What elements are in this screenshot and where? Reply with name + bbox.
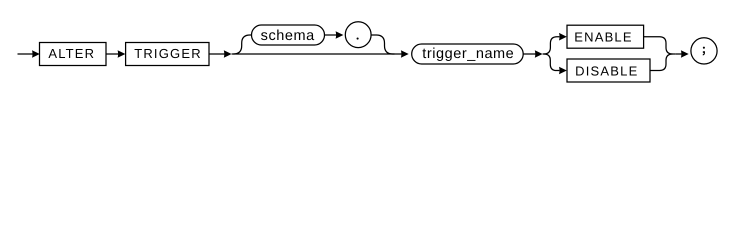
main skip wire under schema branch [232,53,402,55]
svg-text:schema: schema [261,28,315,44]
nonterminal stadium schema [252,25,325,45]
arrowhead into DISABLE [559,67,567,75]
split-down curve to DISABLE [544,54,560,71]
svg-text:trigger_name: trigger_name [422,46,514,62]
branch-down curve rejoining main wire [371,35,394,54]
split wire continue [543,53,544,55]
nonterminal stadium trigger_name [412,44,524,64]
arrowhead into dot [336,31,344,39]
split-up curve to ENABLE [544,37,560,54]
wire merge to semicolon [675,53,682,55]
keyword box ALTER [40,43,107,66]
svg-text:ENABLE: ENABLE [574,29,633,44]
wire schema to dot [325,34,338,36]
keyword box TRIGGER [126,43,209,66]
keyword box ENABLE [567,25,644,48]
merge wire from ENABLE [644,37,676,54]
wire ALTER to TRIGGER [106,53,119,55]
merge wire from DISABLE [650,54,673,71]
arrowhead after TRIGGER [224,50,232,58]
start wire [18,53,35,55]
start arrowhead [32,50,40,58]
arrowhead into trigger_name [401,50,409,58]
arrowhead into semicolon [681,50,689,58]
keyword box DISABLE [567,59,650,82]
svg-text:ALTER: ALTER [48,46,95,61]
terminal circle semicolon [691,38,717,64]
arrowhead into ENABLE [559,33,567,41]
arrowhead before split [535,50,543,58]
arrowhead into TRIGGER [118,50,126,58]
svg-text:TRIGGER: TRIGGER [134,46,202,61]
svg-text:DISABLE: DISABLE [575,64,638,79]
wire after TRIGGER [209,53,225,55]
branch-up curve to schema [233,35,251,54]
terminal circle dot [345,22,371,48]
wire trigger_name to split [523,53,536,55]
